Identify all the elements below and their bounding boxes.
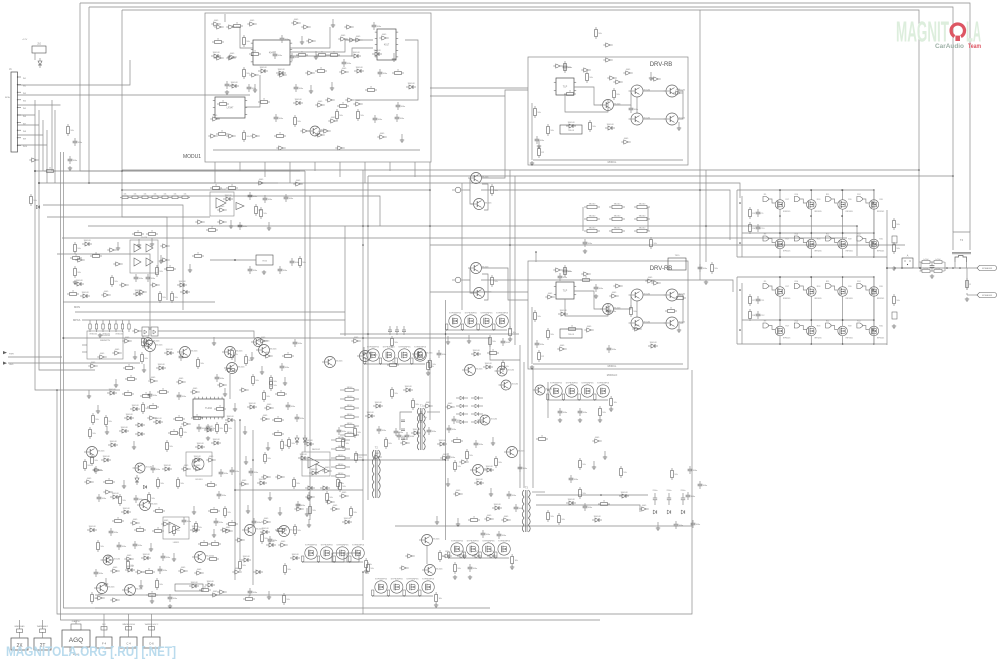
diode Df2_26 [276,69,286,75]
capacitor C-reg2 [278,266,288,274]
resistor R-bankA1 [749,207,756,219]
transistor Q1-DRV2 [600,304,621,315]
wire fet drain A1 [779,190,781,200]
resistor Rf2_52 [216,131,228,136]
svg-text:STP80NF55: STP80NF55 [449,313,462,315]
svg-text:NE5532: NE5532 [312,449,321,451]
capacitor Cf2_47 [274,114,284,122]
resistor Rf3_15 [67,291,79,296]
regulator U14 [668,255,686,270]
wire top rail 2 [89,7,953,232]
gate Gf2_12 [353,36,362,42]
diode Df6_16 [101,456,111,462]
resistor R-reg [299,256,307,268]
svg-text:TL074: TL074 [141,237,148,239]
transistor Q-cm5 [478,415,498,425]
resistor Rf6_20 [264,452,272,464]
resistor R-cm6 [439,550,447,562]
wire drv internal 1-DRV1 [574,87,602,105]
svg-text:+12V: +12V [22,39,28,41]
resistor Rg-P2-2 [379,358,381,365]
diode Df2_32 [229,82,239,88]
transistor Q37 [412,349,433,360]
ground reg [262,270,266,274]
gate G8 [306,39,315,43]
transistor Q-psw2 [499,380,519,390]
svg-text:STP80NF55: STP80NF55 [581,383,594,385]
transistor Q34 [224,363,245,374]
diode D-cm2 [320,486,330,490]
wire psu row rail P4 [303,561,363,563]
resistor Rf10_17 [468,517,480,522]
wire drv internal 4-DRV2 [643,322,666,324]
mosfet QB1 [775,239,790,253]
gate Gf9_19 [440,454,449,460]
mosfet Q-P5-4 [422,579,435,594]
connector 2T [34,620,51,650]
transistor Q33 [256,345,277,356]
transistor Q-osc [308,126,328,136]
gate Gf6_35 [239,480,248,486]
gate Gf9_6 [445,403,454,409]
comparator pair 2 bottom transistor [471,288,492,299]
resistor Rf7_35 [284,563,292,575]
node fet C4 [873,276,875,321]
connector C4 [120,614,137,648]
node fet B4 [873,232,875,258]
transistor Q4-DRV2 [629,317,651,329]
ground psu P5 [434,603,438,607]
svg-text:1N4148: 1N4148 [404,386,412,388]
gate G17 [226,134,235,138]
svg-text:R19: R19 [848,199,851,201]
wire t3 feed x524 [523,362,525,488]
ground gf5_38 [96,405,100,413]
gate Gf14_15 [557,345,566,351]
ground gf6_19 [244,456,248,464]
svg-text:MPXA: MPXA [73,318,81,322]
transistor Q36 [357,351,378,362]
svg-text:1N4148: 1N4148 [261,528,269,530]
capacitor C-bl1 [215,374,225,382]
wire pwm pair2 out [482,274,488,300]
svg-text:1N4148: 1N4148 [248,403,256,405]
ground gf10_8 [446,478,450,486]
wire modulo rail [547,382,549,418]
resistor Rd3-DRV2 [564,265,572,277]
mosfet Q-P3-4 [597,383,610,398]
resistor Rf11_7 [579,487,587,499]
svg-text:1N4148: 1N4148 [111,493,119,495]
capacitor C-u20b [206,424,216,432]
capacitor bank C-t1a [397,432,407,440]
svg-text:IRF3205: IRF3205 [814,211,821,213]
ground psu P1 [508,337,512,341]
transistor Q-cm1 [242,525,263,536]
transistor Q3-DRV1 [664,85,686,97]
resistor Rd3-DRV1 [564,61,572,73]
ground gf2_10 [300,36,304,44]
ground gf5_35 [223,388,227,396]
wire right feed down [699,10,701,280]
node input B [38,182,40,184]
svg-text:1N4148: 1N4148 [352,52,360,54]
svg-text:SB560: SB560 [338,455,343,457]
mosfet Q-P1-2 [465,313,478,328]
wire mpxa link [158,331,254,338]
wire left col x35 [35,100,120,390]
ground gf3_4 [150,238,154,246]
resistor Rg-P2-4 [411,358,413,365]
gate mid G7 [150,283,159,287]
optocoupler pair box 1 [142,327,149,336]
capacitor Cf12_10 [691,520,701,528]
svg-text:7815: 7815 [262,261,268,263]
wire bank rail top A [737,189,874,191]
gate G5 [249,73,258,77]
ground gf2_33 [253,84,257,92]
wire x462 vertical [461,183,463,310]
gate G15 [321,129,330,133]
diode Df5_52 [225,416,235,422]
gate Gf7_21 [124,555,133,561]
gate preamp G9 [217,220,226,224]
resistor Rf5_36 [263,390,271,402]
transistor Q4-DRV1 [629,113,651,125]
diode Df6_36 [257,479,267,485]
diode Df3_18 [133,290,143,296]
capacitor Cf10_12 [507,491,517,499]
logo MAGNITOLA wordmark [896,17,981,49]
ground gf4_9 [267,222,271,230]
resistor Rf11_10 [598,501,610,506]
diode Df8_7 [309,469,319,475]
module DRV-RB block 1 [0,0,1,1]
gate cm G4 [325,500,334,504]
capacitor Cf9_13 [427,427,437,435]
diode Df6_23 [162,465,172,471]
mosfet Q-P4-4 [352,545,365,560]
capacitor C-out2 [892,312,897,319]
capacitor C-bl3 [168,594,178,602]
ground gf15_7 [362,347,366,355]
resistor Rf5_47 [105,415,113,427]
svg-text:1N4148: 1N4148 [230,82,238,84]
wire junction dots [34,169,954,573]
capacitor Cf6_39 [134,495,144,503]
diode Df10_13 [492,504,502,510]
connector AGQ [62,620,90,656]
resistor Rf3_5 [70,255,82,260]
ground gf3_7 [159,255,163,263]
svg-text:BC546: BC546 [238,367,245,369]
resistor Rg-P6-3 [479,552,481,559]
diode Df6_12 [211,439,221,445]
gate Gf15_1 [351,337,360,343]
mosfet QD1 [775,326,790,340]
gate Gf4_2 [293,180,302,186]
ground gf5_20 [260,366,264,374]
mosfet QC4 [869,286,884,300]
resistor R-P3-pull [610,396,618,408]
svg-text:SBMMPTN: SBMMPTN [100,340,111,342]
svg-text:1N4148: 1N4148 [291,554,299,556]
ground gf2_19 [314,51,318,59]
gate G22 [603,58,612,62]
transistor Q-cm6 [504,447,525,458]
capacitor Cd2-DRV2 [535,340,545,348]
capacitor Cf9_9 [452,416,462,424]
svg-text:R17: R17 [786,199,789,201]
resistor R-bl8 [195,521,203,533]
svg-text:R18: R18 [817,239,820,241]
node fet A2 [811,189,813,234]
svg-text:R20: R20 [879,199,882,201]
wire psu row rail P6 [449,557,509,559]
wire x240 vertical [239,420,241,560]
wire mid horizontal bus B [62,237,847,239]
node fet A3 [842,189,844,234]
svg-text:1N4148: 1N4148 [131,405,139,407]
resistor Rf2_20 [328,52,340,57]
wire mid horizontal bus C [430,244,905,246]
wire drv internal 6-DRV1 [636,97,638,113]
resistor Rg-P1-3 [477,324,479,331]
resistor R-db1 [454,562,462,574]
resistor Rf13_1 [586,71,594,83]
wire fet source C4 [873,296,875,320]
mosfet Q-P1-4 [496,313,509,328]
svg-text:LF347: LF347 [227,107,234,110]
gate driver Dg-A2 [794,194,806,203]
wire fet source A2 [810,209,812,233]
optocoupler U-DRV2 [554,282,576,299]
ground gf7_7 [212,529,216,537]
gate G16 [250,134,259,138]
gate preamp G5 [160,194,170,199]
comparator pair 2 top transistor [468,263,489,274]
gate Gf2_11 [338,35,347,41]
wire center rail x490 [490,338,520,360]
mosfet Q-P6-1 [451,541,464,556]
svg-text:IRF3205: IRF3205 [877,298,884,300]
gate G3 [214,56,223,60]
svg-text:1N4148: 1N4148 [81,292,89,294]
gate Gd4-DRV1 [651,77,660,81]
transistor Q40 [84,447,105,458]
capacitor C-osc3 [342,59,352,67]
gate Gf14_3 [645,277,654,283]
svg-text:SB2040: SB2040 [639,228,645,230]
gate Gf6_58 [261,518,270,524]
resistor Rg-P6-1 [448,552,450,559]
svg-text:10k: 10k [184,194,187,196]
wire psu row rail P2 [365,363,425,365]
wire fet source D4 [873,336,875,344]
resistor Rf6_10 [166,440,174,452]
svg-text:STP80NF55: STP80NF55 [398,347,411,349]
svg-text:1N4148: 1N4148 [157,364,165,366]
svg-text:LM311: LM311 [173,542,180,544]
resistor Rf7_10 [275,527,287,532]
gate cm G3 [305,495,314,499]
connector J1 input header [9,67,21,152]
capacitor C-in2 [73,138,83,146]
gate Gf6_24 [181,465,190,471]
wire fet source A1 [779,209,781,233]
svg-text:IRF3205: IRF3205 [846,338,853,340]
diode Df14_17 [648,342,658,348]
ground gf3_11 [188,264,192,272]
gate driver Dg-A1 [763,194,775,203]
capacitor C-r2 [698,264,708,272]
ground mod3 [598,418,602,422]
svg-text:STP80NF55: STP80NF55 [305,545,318,547]
gate driver Dg-D3 [826,321,838,330]
diode D-bl4 [253,570,263,574]
diode Df15_13 [483,363,493,369]
svg-text:SB560: SB560 [347,405,352,407]
gate G1 [214,25,223,29]
gate Gf3_17 [101,291,110,297]
diode Df14_7 [558,310,568,316]
svg-text:BC546: BC546 [491,419,498,421]
ground gf13_3 [649,72,653,80]
ground gf6_42 [268,492,272,500]
resistor Rg-P4-2 [317,556,319,563]
diode D-bl1 [135,423,145,427]
svg-text:R10: R10 [795,234,798,236]
resistor Rf2_2 [231,23,243,28]
capacitor C-reg3 [290,258,300,266]
resistor R-u20a [216,422,224,434]
gate bl G10 [217,590,226,594]
logo CarAudio Team [935,43,981,50]
resistor R-left2 [74,266,82,278]
rc ladder input filter [89,320,130,336]
wire drv internal 3-DRV1 [643,90,666,92]
svg-text:BC546: BC546 [436,569,443,571]
resistor R-P2-pull [427,360,435,372]
ground gf13_12 [537,140,541,148]
svg-text:IN9: IN9 [23,139,26,141]
resistor R-cm7 [495,456,503,468]
svg-text:1N4148: 1N4148 [484,363,492,365]
capacitor Cf2_17 [273,51,283,59]
gate mid G1 [107,248,116,252]
svg-text:MODU1: MODU1 [183,154,201,160]
diode Df12_5 [619,492,629,498]
wire fet drain B3 [842,233,844,239]
svg-text:1N4148: 1N4148 [258,479,266,481]
wire drv internal 5-DRV2 [678,295,683,323]
resistor R-osc1 [336,109,344,121]
svg-text:R20: R20 [879,239,882,241]
svg-text:BC546: BC546 [151,504,158,506]
wire fet source C2 [810,296,812,320]
resistor R-in2 [44,168,56,173]
svg-text:1N4148: 1N4148 [125,414,133,416]
wire drv internal 4-DRV1 [643,118,666,120]
resistor Rf5_51 [191,415,203,420]
diode Df13_8 [566,122,576,128]
ground gf7_36 [104,578,108,586]
svg-text:IN4: IN4 [23,101,26,103]
capacitor Cf12_9 [674,521,684,529]
svg-text:SB2040: SB2040 [614,204,620,206]
transistor Q-cm3 [419,535,440,546]
wire osc internal 3 [290,48,373,56]
capacitor Cf4_4 [263,195,273,203]
capacitor Cf2_30 [378,69,388,77]
ground input [68,166,72,170]
capacitor Cf2_18 [290,53,300,61]
wire fet drain A3 [842,190,844,200]
resistor Rf5_30 [122,391,134,396]
svg-text:STP80NF55: STP80NF55 [336,545,349,547]
svg-text:IRF3205: IRF3205 [814,298,821,300]
capacitor Cf6_55 [214,518,224,526]
transistor Q38 [462,365,483,376]
gate Gf7_43 [210,591,219,597]
capacitor Cf14_16 [607,345,617,353]
wire input col x55 [54,110,56,183]
wire nested loop 2 [39,182,278,184]
resistor Rd1-DRV1 [534,106,542,118]
gate cm G5 [235,538,244,542]
resistor R-bl10 [239,559,247,571]
svg-text:IRF3205: IRF3205 [877,211,884,213]
wire fet drain B4 [873,233,875,239]
resistor Rf5_19 [225,367,237,372]
ground gf12_8 [656,522,660,530]
svg-text:STP80NF55: STP80NF55 [496,313,509,315]
resistor Rf2_43 [337,103,349,108]
gate G19 [276,146,285,150]
gate Gf2_3 [247,20,256,26]
resistor R-P6-pull [511,554,519,566]
wire pwm pair1b [470,190,473,204]
gate Gf4_6 [217,206,226,212]
svg-text:1N4148: 1N4148 [212,52,220,54]
ground gf6_6 [243,426,247,434]
ground gf6_31 [122,480,126,488]
mosfet Q-P4-3 [336,545,349,560]
resistor Rf6_4 [168,430,180,435]
wire osc internal 4 [245,75,260,107]
node input A [34,170,36,172]
capacitor Cf10_20 [481,530,491,538]
ground osc1 [225,90,229,94]
gate G20 [335,146,344,150]
capacitor Cf9_10 [377,426,387,434]
ic U20 TL494 [193,397,224,419]
svg-text:SB2040: SB2040 [589,228,595,230]
svg-text:IRF3205: IRF3205 [877,251,884,253]
resistor Rf8_2 [354,426,362,438]
wire drv internal 8-DRV2 [533,363,683,365]
svg-text:BC546: BC546 [108,587,115,589]
resistor Rf15_5 [489,335,497,347]
ground gf4_8 [229,220,233,228]
wire input feed 3 [17,104,61,106]
capacitor Cf7_23 [161,553,171,561]
transistor Q39 driver [186,452,212,481]
mosfet QD2 [807,326,822,340]
svg-text:R17: R17 [786,239,789,241]
resistor R-bl1 [141,352,149,364]
svg-text:SB2040: SB2040 [589,216,595,218]
